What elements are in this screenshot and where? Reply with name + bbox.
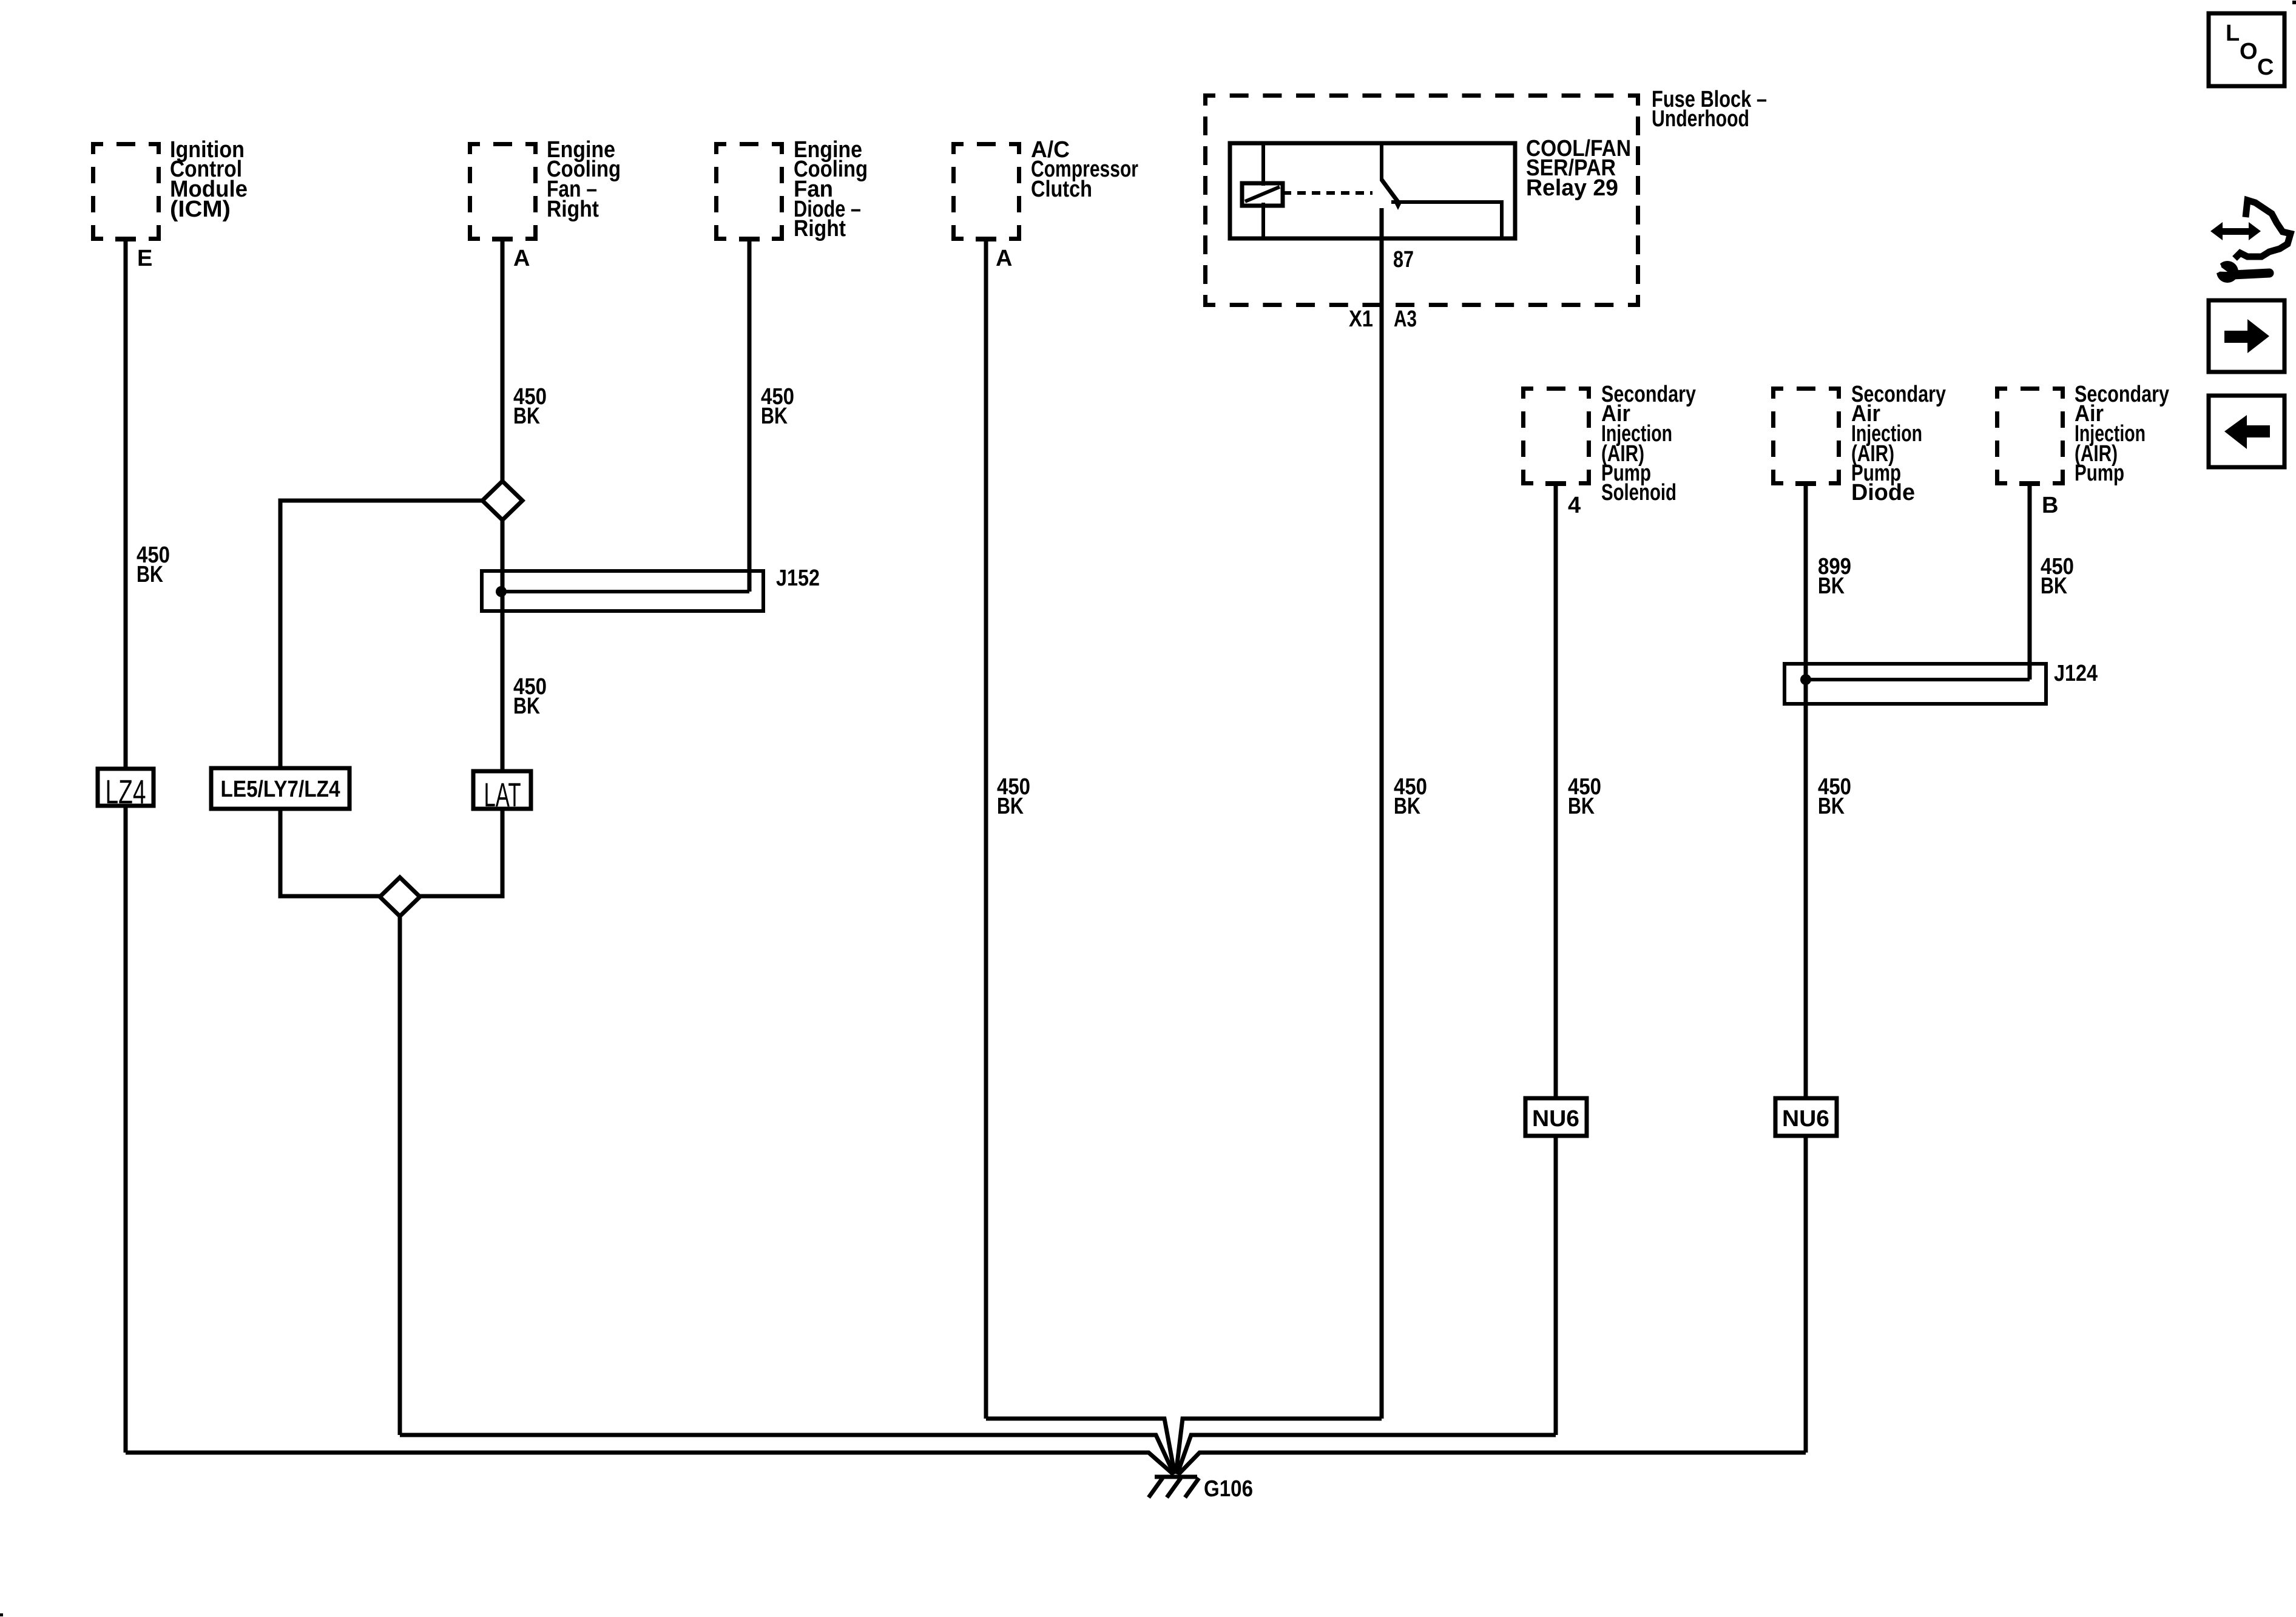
relay coil: [1242, 183, 1283, 206]
svg-text:(ICM): (ICM): [170, 197, 231, 222]
icon: back arrow box: [2209, 396, 2284, 467]
LOC legend box: [2209, 13, 2284, 86]
svg-text:J124: J124: [2054, 661, 2098, 686]
svg-text:BK: BK: [1818, 573, 1845, 599]
svg-text:Clutch: Clutch: [1031, 177, 1092, 202]
wire: diamond branch left and down to LE5/LY7/LZ4: [280, 501, 485, 769]
wire: LE5/LY7/LZ4 down to lower splice diamond: [280, 809, 382, 896]
junction dot in J152: [496, 586, 507, 597]
splice J124: [1784, 664, 2046, 704]
wire: lower diamond down to ground bus: [398, 914, 402, 1435]
svg-text:B: B: [2042, 493, 2058, 518]
wire 450 BK: A/C compressor clutch to ground bus: [976, 237, 996, 241]
svg-text:87: 87: [1393, 247, 1414, 272]
connector: Engine Cooling Fan Diode - Right: [714, 142, 784, 241]
svg-text:BK: BK: [2041, 573, 2067, 599]
svg-text:Diode: Diode: [1851, 480, 1915, 505]
svg-text:A: A: [996, 246, 1012, 271]
relay control dashed line: [1283, 191, 1373, 195]
page mark top right: [2292, 1, 2296, 4]
icon: forward arrow box: [2209, 300, 2284, 372]
relay contact bar to 87a path: [1391, 202, 1502, 237]
Fuse Block - Underhood (dashed enclosure): [1203, 93, 1640, 307]
splice diamond node (fan right branch): [482, 481, 522, 520]
svg-text:BK: BK: [761, 403, 788, 429]
svg-text:BK: BK: [997, 794, 1024, 819]
svg-text:BK: BK: [1568, 794, 1595, 819]
svg-text:LE5/LY7/LZ4: LE5/LY7/LZ4: [221, 777, 340, 802]
svg-text:BK: BK: [513, 403, 540, 429]
wire: relay pin 87 through fuse block edge: [1380, 208, 1384, 1419]
svg-text:X1: X1: [1349, 306, 1373, 332]
ground bus tier 3: ICM and diode wires: [126, 1453, 1173, 1474]
relay switch arm: [1380, 143, 1383, 181]
svg-text:BK: BK: [513, 694, 540, 719]
wire: diamond down through J152 to LAT: [501, 518, 505, 771]
svg-text:O: O: [2240, 39, 2258, 64]
option box LAT: [473, 771, 531, 809]
relay: COOL/FAN SER/PAR Relay 29 (outline): [1230, 143, 1515, 238]
junction dot in J124: [1800, 674, 1811, 685]
svg-text:LAT: LAT: [484, 775, 521, 814]
relay switch contact arrowhead: [1393, 200, 1403, 210]
wire 450 BK: fan right pin A to splice diamond: [492, 237, 513, 241]
wire: LAT down to lower splice diamond: [418, 809, 502, 896]
option box LZ4 (ICM wire): [98, 769, 154, 806]
svg-text:Pump: Pump: [2075, 461, 2124, 486]
wire 450 BK: fan diode down to splice J152: [739, 237, 760, 241]
svg-text:BK: BK: [137, 562, 163, 587]
svg-text:BK: BK: [1818, 794, 1845, 819]
connector: Secondary Air Injection (AIR) Pump Solenoid: [1521, 387, 1591, 485]
svg-text:4: 4: [1568, 493, 1581, 518]
relay coil support lines: [1261, 143, 1265, 186]
svg-text:A: A: [513, 246, 530, 271]
svg-text:NU6: NU6: [1532, 1106, 1579, 1132]
svg-text:E: E: [137, 246, 152, 271]
svg-text:A3: A3: [1394, 306, 1417, 332]
wire 450 BK: AIR pump pin B to splice J124: [2019, 481, 2040, 486]
svg-text:Underhood: Underhood: [1652, 106, 1749, 132]
splice J152: [482, 571, 763, 611]
lower splice diamond node: [380, 877, 420, 916]
connector: Secondary Air Injection (AIR) Pump: [1995, 387, 2065, 485]
ground symbol G106: [1155, 1475, 1197, 1479]
wire 899 BK: AIR pump diode to J124 and ground: [1795, 481, 1816, 486]
ground bus tier 2: diamond and solenoid wires: [400, 1435, 1174, 1474]
svg-text:G106: G106: [1204, 1476, 1253, 1502]
option box NU6 (diode wire): [1775, 1098, 1837, 1136]
option box NU6 (solenoid wire): [1525, 1098, 1587, 1136]
connector: Secondary Air Injection (AIR) Pump Diode: [1771, 387, 1841, 485]
ground bus tier 1: A/C and relay wires: [986, 1419, 1175, 1474]
svg-text:L: L: [2226, 21, 2240, 46]
svg-text:Relay 29: Relay 29: [1526, 175, 1618, 201]
svg-text:Solenoid: Solenoid: [1601, 480, 1676, 505]
wire 450 BK: ICM pin E down to ground bus: [115, 237, 136, 241]
option box LE5/LY7/LZ4: [211, 768, 349, 809]
svg-text:LZ4: LZ4: [106, 772, 146, 811]
svg-text:BK: BK: [1394, 794, 1420, 819]
connector: Engine Cooling Fan - Right: [468, 142, 538, 241]
wire 450 BK: AIR pump solenoid to ground bus: [1545, 481, 1566, 486]
icon: component view (car outline with arrow and wrench): [2210, 222, 2261, 240]
svg-text:Right: Right: [547, 197, 599, 222]
svg-text:Right: Right: [794, 216, 846, 241]
page mark bottom left: [0, 1613, 3, 1616]
connector: A/C Compressor Clutch: [951, 142, 1021, 241]
connector: Ignition Control Module (ICM): [91, 142, 161, 241]
svg-text:C: C: [2257, 55, 2274, 80]
svg-text:J152: J152: [776, 565, 820, 591]
svg-text:NU6: NU6: [1782, 1106, 1829, 1132]
